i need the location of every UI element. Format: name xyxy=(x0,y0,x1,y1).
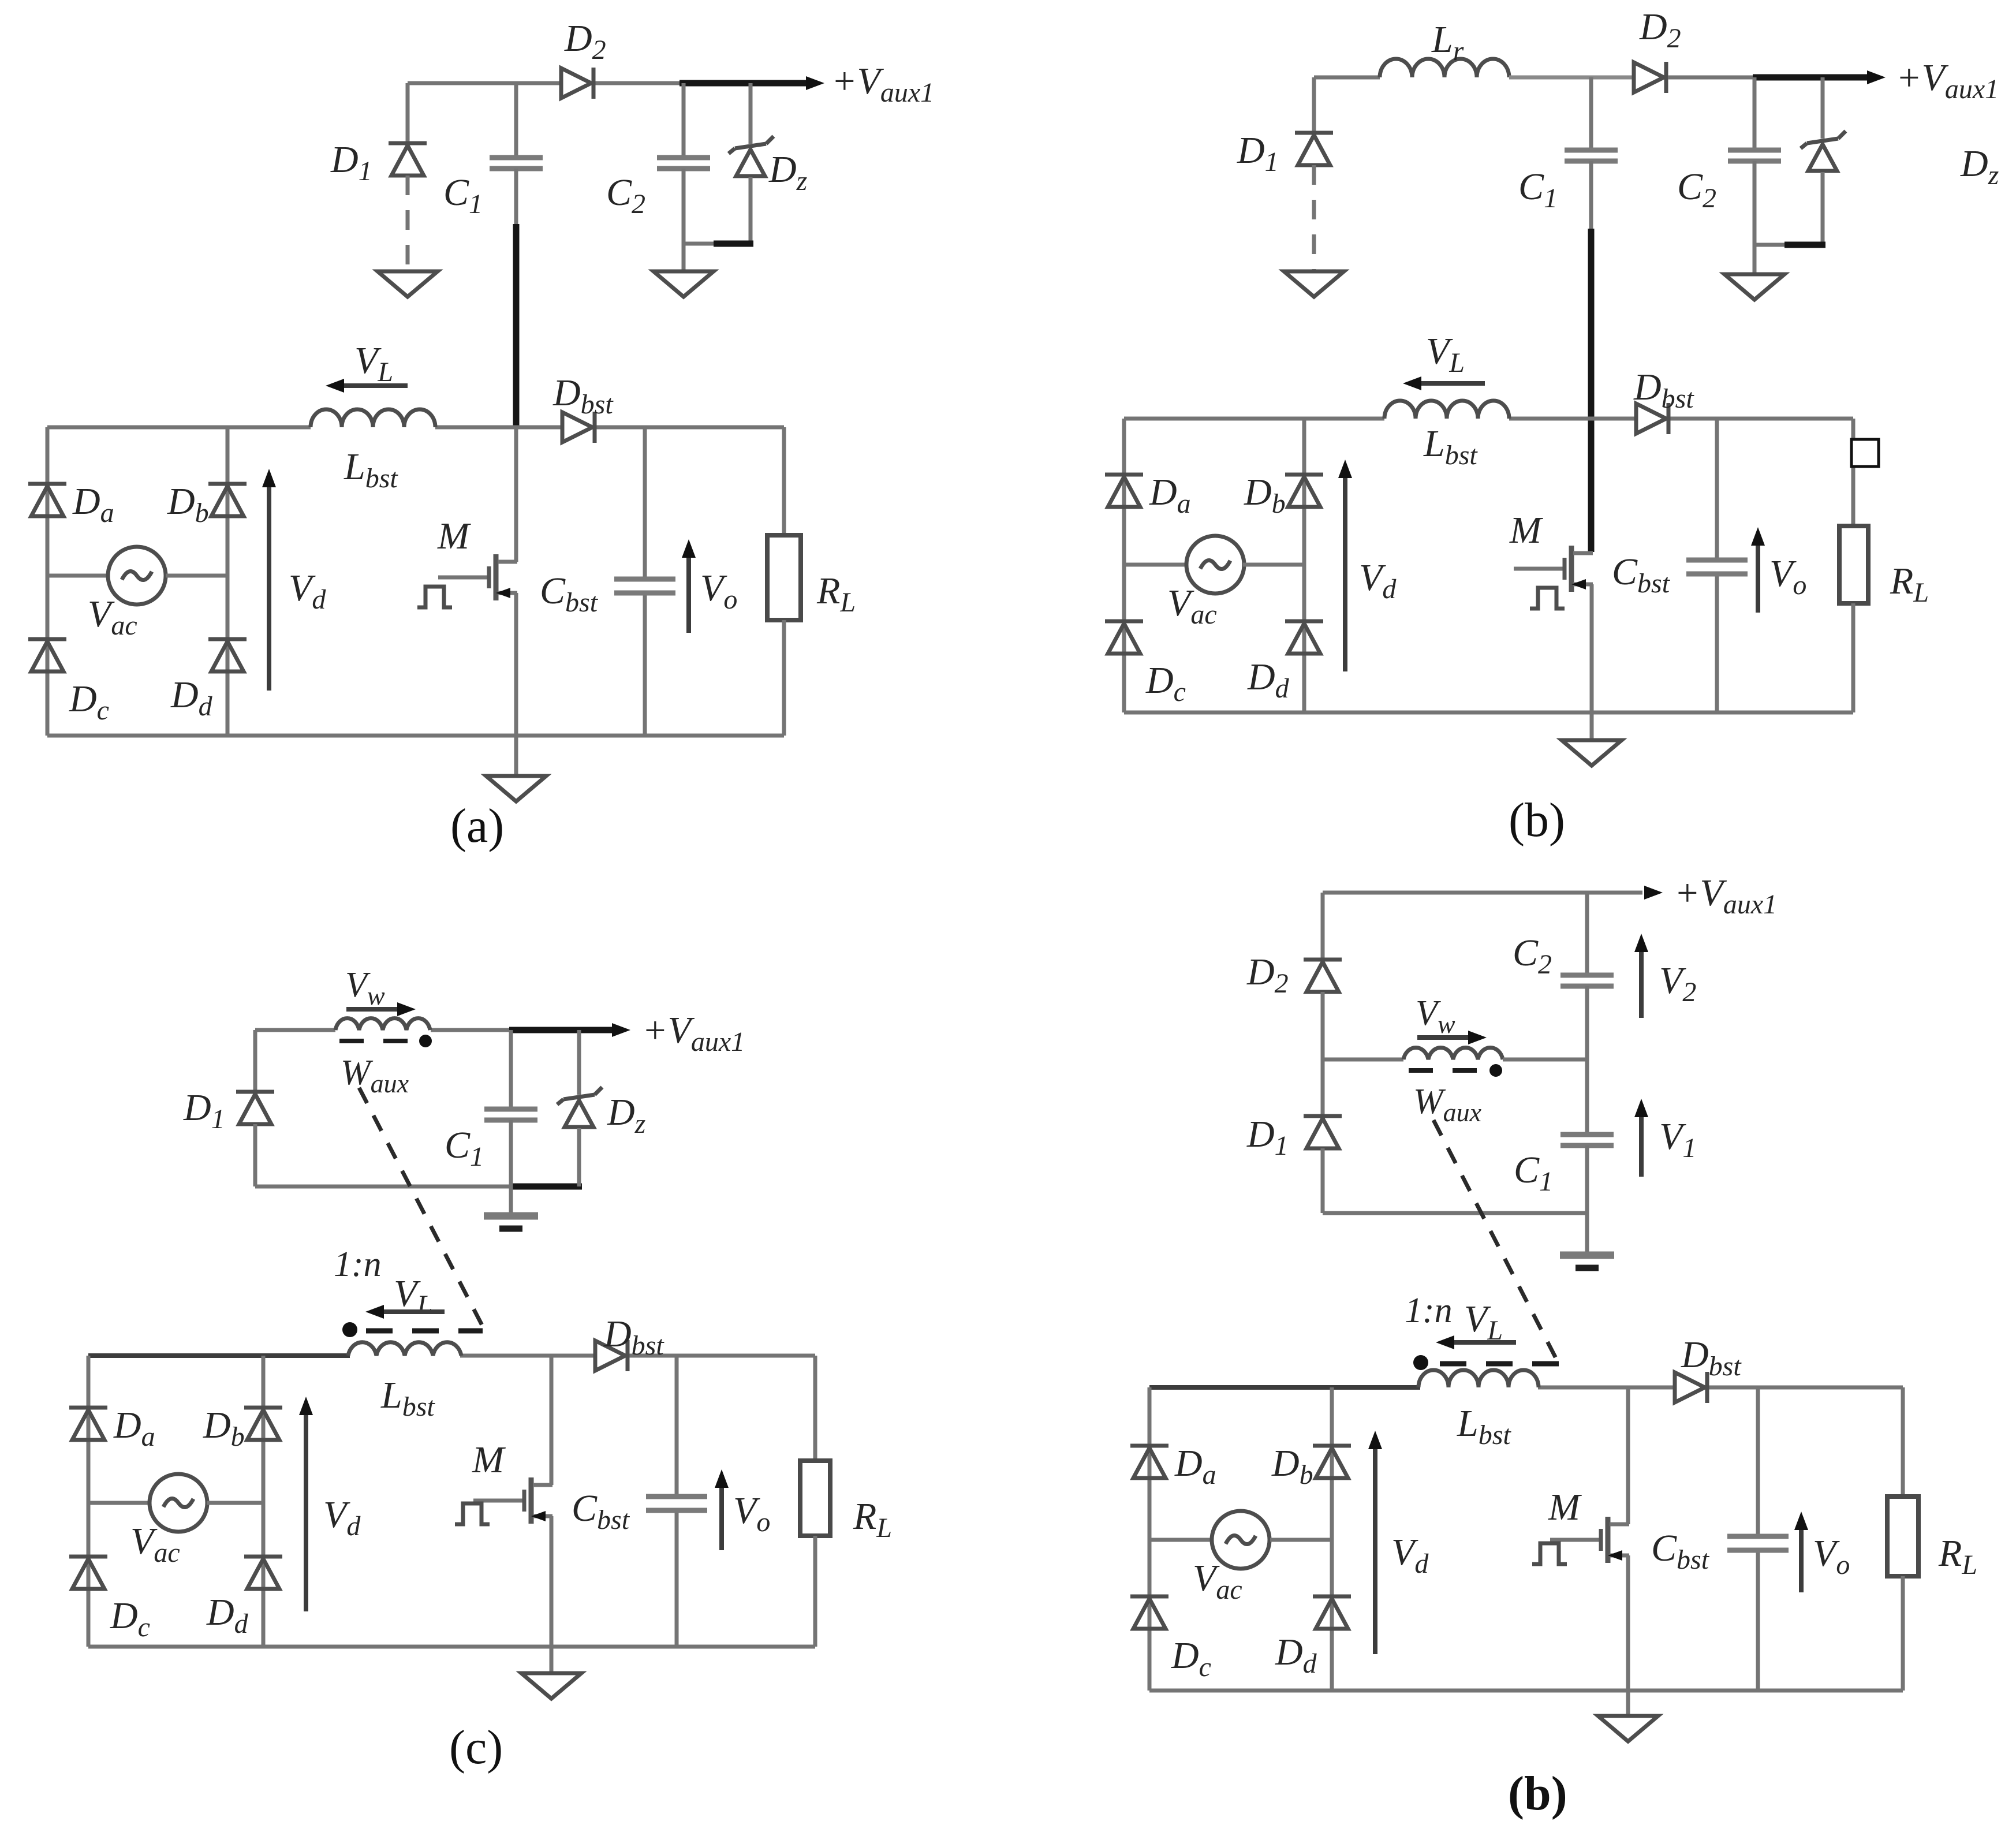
node VL arrowhead B xyxy=(1403,376,1421,390)
wire C1 top lead B xyxy=(1589,77,1593,149)
svg-text:Vd: Vd xyxy=(289,567,326,615)
diode Dc B xyxy=(1105,621,1143,654)
wire main left leg D xyxy=(1148,1387,1152,1691)
wire Vd arrow shaft D xyxy=(1373,1446,1377,1654)
diode Dc D xyxy=(1130,1596,1168,1629)
wire right branch upper B xyxy=(1851,419,1856,526)
wire right branch lower C xyxy=(813,1536,817,1647)
diode Dd D xyxy=(1313,1596,1351,1629)
wire mosfet source vertical D xyxy=(1626,1555,1630,1691)
diode Dd A xyxy=(208,639,247,671)
resistor RL C xyxy=(800,1461,830,1536)
wire bridge mid left C xyxy=(88,1501,150,1505)
wire V1 arrow shaft D xyxy=(1639,1114,1644,1177)
wire main top rail D xyxy=(1538,1386,1903,1390)
svg-text:Vac: Vac xyxy=(1193,1557,1242,1605)
svg-text:Dd: Dd xyxy=(1247,656,1290,704)
node Waux dot C xyxy=(419,1035,432,1047)
node Vo arrowhead A xyxy=(682,539,696,558)
capacitor C1 (aux A) xyxy=(490,158,543,169)
node V2 arrowhead D xyxy=(1634,934,1648,952)
capacitor C2 (aux A) xyxy=(657,158,710,169)
svg-text:Cbst: Cbst xyxy=(572,1487,630,1535)
capacitor Cbst D xyxy=(1727,1536,1789,1550)
wire Waux dash under coil D xyxy=(1409,1068,1483,1073)
wire V2 arrow shaft D xyxy=(1639,949,1644,1018)
svg-text:D1: D1 xyxy=(330,139,372,186)
svg-text:D1: D1 xyxy=(1246,1113,1289,1161)
node +Vaux1 arrow C xyxy=(612,1023,630,1037)
diode Db D xyxy=(1313,1446,1351,1478)
node sense square B xyxy=(1851,439,1879,467)
wire Cbst branch D xyxy=(1756,1387,1760,1691)
capacitor C2 (aux D) xyxy=(1560,975,1614,986)
wire C1 long black drop B xyxy=(1588,229,1595,552)
wire mosfet source vertical C xyxy=(550,1516,554,1647)
node Vo arrowhead B xyxy=(1751,527,1765,546)
svg-text:Db: Db xyxy=(167,480,209,528)
node V1 arrowhead D xyxy=(1634,1099,1648,1117)
wire main top rail left black C xyxy=(88,1353,350,1358)
capacitor Cbst B xyxy=(1686,560,1748,574)
diode D1 (aux B) xyxy=(1295,133,1333,165)
svg-text:D1: D1 xyxy=(1237,129,1279,177)
svg-text:Lbst: Lbst xyxy=(380,1374,435,1422)
wire VL arrow shaft C xyxy=(375,1309,445,1314)
svg-text:Dz: Dz xyxy=(768,148,808,196)
wire Dz bottom lead B xyxy=(1821,172,1825,245)
svg-text:Da: Da xyxy=(113,1404,155,1452)
wire Cbst branch B xyxy=(1715,419,1719,712)
transistor M (mosfet) D xyxy=(1550,1517,1629,1563)
wire aux bottom rail D xyxy=(1323,1211,1587,1215)
diode D1 (aux A) xyxy=(389,143,427,176)
wire Vd arrow shaft B xyxy=(1343,475,1347,671)
svg-text:V2: V2 xyxy=(1659,960,1696,1007)
wire bridge right leg C xyxy=(262,1356,266,1647)
svg-text:M: M xyxy=(1509,509,1544,551)
ac source Vac A xyxy=(108,547,166,604)
svg-text:D1: D1 xyxy=(183,1087,225,1135)
wire C2 top lead B xyxy=(1753,77,1757,149)
wire bridge mid right D xyxy=(1270,1538,1332,1542)
wire Cbst branch A xyxy=(643,427,647,736)
capacitor Cbst A xyxy=(614,579,675,593)
svg-text:(b): (b) xyxy=(1509,793,1565,847)
svg-text:RL: RL xyxy=(1890,560,1929,608)
ground main A xyxy=(486,776,546,801)
resistor RL D xyxy=(1887,1497,1918,1576)
wire main bottom rail A xyxy=(47,734,784,738)
diode Da D xyxy=(1130,1446,1168,1478)
wire main top rail A xyxy=(47,426,784,430)
capacitor C1 (aux D) xyxy=(1560,1135,1614,1145)
svg-text:Vw: Vw xyxy=(1416,994,1455,1039)
capacitor C1 (aux B) xyxy=(1565,150,1618,161)
svg-text:VL: VL xyxy=(354,339,393,387)
svg-text:Lbst: Lbst xyxy=(1423,423,1478,471)
svg-text:Dbst: Dbst xyxy=(603,1313,664,1361)
wire aux top rail B xyxy=(1314,76,1380,80)
wire coupling dashed line D xyxy=(1433,1120,1559,1364)
svg-text:RL: RL xyxy=(816,570,856,618)
transistor M (mosfet) C xyxy=(473,1477,552,1524)
svg-text:D2: D2 xyxy=(564,17,606,65)
wire aux top rail C xyxy=(255,1028,514,1032)
node Lbst dot D xyxy=(1413,1355,1428,1370)
svg-text:RL: RL xyxy=(1938,1532,1977,1580)
svg-text:C1: C1 xyxy=(1518,166,1558,214)
svg-text:C1: C1 xyxy=(445,1124,484,1172)
node gate pulse symbol A xyxy=(417,587,452,607)
wire mosfet drain vertical D xyxy=(1626,1387,1630,1524)
wire mosfet drain vertical A xyxy=(514,427,518,562)
diode Db C xyxy=(244,1408,282,1440)
node +Vaux1 arrow D xyxy=(1644,886,1663,900)
svg-text:Lbst: Lbst xyxy=(1457,1402,1511,1450)
wire bridge right leg A xyxy=(226,427,230,736)
wire D1 to ground dashed A xyxy=(406,176,410,271)
wire D2-to-output B xyxy=(1668,76,1758,80)
svg-text:Waux: Waux xyxy=(1413,1082,1482,1127)
svg-text:Cbst: Cbst xyxy=(1612,551,1671,599)
wire C2 bottom lead A xyxy=(682,169,686,271)
wire aux bottom black segment C xyxy=(509,1184,582,1190)
wire aux mid rail right D xyxy=(1503,1058,1587,1062)
wire Lbst dash above coil C xyxy=(366,1329,483,1334)
transistor M (mosfet) B xyxy=(1514,546,1593,592)
svg-text:RL: RL xyxy=(853,1495,892,1543)
ground main C xyxy=(521,1673,581,1699)
wire Dz bottom lead C xyxy=(577,1128,581,1186)
svg-text:Dc: Dc xyxy=(110,1595,150,1643)
wire ground stem D xyxy=(1626,1691,1630,1716)
node VL arrowhead C xyxy=(365,1305,384,1319)
wire bridge mid left A xyxy=(47,574,108,578)
svg-text:Dz: Dz xyxy=(607,1091,646,1139)
node +Vaux1 arrow A xyxy=(806,76,824,90)
QUADRANT D xyxy=(1130,872,1977,1820)
wire Dz top lead C xyxy=(577,1030,581,1095)
svg-text:D2: D2 xyxy=(1246,951,1289,999)
node Vd arrowhead D xyxy=(1368,1431,1382,1449)
svg-text:Dd: Dd xyxy=(1275,1631,1317,1679)
diode D2 (aux B) xyxy=(1634,62,1666,93)
diode Dbst B xyxy=(1636,403,1668,434)
wire right branch lower D xyxy=(1901,1576,1905,1691)
wire mosfet drain vertical C xyxy=(550,1356,554,1485)
svg-text:Dbst: Dbst xyxy=(1681,1334,1742,1382)
wire ground stem A xyxy=(514,736,518,776)
wire D1 to ground dashed B xyxy=(1312,165,1316,271)
svg-text:Dbst: Dbst xyxy=(552,372,614,420)
wire main top rail left black D xyxy=(1149,1385,1420,1390)
capacitor C2 (aux B) xyxy=(1728,150,1781,161)
node Vw arrowhead D xyxy=(1468,1031,1487,1044)
wire aux left leg C xyxy=(253,1030,257,1092)
capacitor C1 (aux C) xyxy=(484,1109,537,1120)
wire aux right leg lower D xyxy=(1585,1145,1589,1213)
ground below D1 B xyxy=(1284,271,1344,297)
svg-text:Dc: Dc xyxy=(1171,1635,1211,1682)
inductor Lbst D xyxy=(1418,1370,1539,1387)
wire right branch lower A xyxy=(782,620,786,736)
svg-text:1:n: 1:n xyxy=(1405,1291,1453,1330)
diode Da B xyxy=(1105,475,1143,507)
svg-text:Dc: Dc xyxy=(1145,659,1186,707)
svg-text:Db: Db xyxy=(1271,1442,1313,1490)
svg-text:Vac: Vac xyxy=(1167,582,1217,630)
wire bridge mid left B xyxy=(1124,563,1188,567)
wire Vw arrow shaft D xyxy=(1417,1035,1470,1040)
svg-text:Vo: Vo xyxy=(1813,1532,1850,1580)
wire right branch upper D xyxy=(1901,1387,1905,1497)
ac source Vac D xyxy=(1212,1511,1270,1569)
winding Waux coil C xyxy=(335,1018,430,1030)
winding Waux coil D xyxy=(1403,1048,1503,1059)
wire Vo arrow shaft A xyxy=(686,545,691,633)
wire aux left leg lower C xyxy=(253,1124,257,1186)
wire bridge mid right B xyxy=(1243,563,1304,567)
node gate pulse symbol B xyxy=(1530,588,1565,609)
wire Lbst dash above coil D xyxy=(1440,1361,1560,1367)
svg-text:M: M xyxy=(472,1439,506,1481)
svg-text:Vo: Vo xyxy=(733,1490,770,1538)
QUADRANT C xyxy=(69,965,892,1774)
svg-text:Cbst: Cbst xyxy=(1651,1527,1710,1575)
wire main top rail B xyxy=(1124,417,1853,421)
svg-text:Vo: Vo xyxy=(700,567,737,615)
wire main left leg B xyxy=(1122,419,1126,712)
diode Dc C xyxy=(69,1557,107,1589)
diode D2 (aux D) xyxy=(1304,960,1342,992)
wire right branch upper A xyxy=(782,427,786,535)
ground below C1 D xyxy=(1560,1255,1614,1268)
svg-text:Vo: Vo xyxy=(1769,553,1806,600)
wire ground stem B xyxy=(1590,712,1594,740)
node gate pulse symbol D xyxy=(1532,1543,1567,1564)
wire C1 top lead C xyxy=(509,1030,513,1108)
svg-text:C1: C1 xyxy=(1514,1149,1553,1197)
QUADRANT B xyxy=(1105,6,1999,847)
wire aux top rail D xyxy=(1323,891,1642,895)
wire aux left leg lower D xyxy=(1321,1148,1325,1213)
diode Dc A xyxy=(28,639,66,671)
svg-text:Cbst: Cbst xyxy=(540,570,599,618)
wire mosfet source vertical A xyxy=(514,593,518,736)
ground below D1 A xyxy=(378,271,438,297)
wire aux ground stem D xyxy=(1585,1213,1589,1252)
diode D2 (aux A) xyxy=(561,68,593,99)
svg-text:Dd: Dd xyxy=(170,674,213,722)
svg-text:C2: C2 xyxy=(606,171,645,219)
svg-text:Vw: Vw xyxy=(345,965,385,1010)
wire right branch upper C xyxy=(813,1356,817,1461)
node Vw arrowhead C xyxy=(397,1002,416,1016)
diode Db B xyxy=(1285,475,1323,507)
wire Dz bottom lead A xyxy=(749,177,753,244)
wire C1 bottom lead gray B xyxy=(1589,161,1593,231)
wire D1 branch upper A xyxy=(406,83,410,143)
diode Dbst A xyxy=(562,412,595,443)
node VL arrowhead A xyxy=(326,379,344,393)
wire Dz-C2 jog B xyxy=(1754,243,1787,247)
wire Vo arrow shaft B xyxy=(1756,533,1760,613)
wire aux output black segment C xyxy=(509,1027,613,1033)
wire bridge right leg B xyxy=(1302,419,1306,712)
wire aux right leg mid1 D xyxy=(1585,986,1589,1133)
svg-text:Lr: Lr xyxy=(1431,18,1464,66)
svg-text:Vd: Vd xyxy=(1391,1531,1429,1579)
svg-text:M: M xyxy=(437,515,472,557)
wire main bottom rail B xyxy=(1124,711,1853,715)
wire main bottom rail C xyxy=(88,1645,815,1649)
wire aux output black segment B xyxy=(1753,74,1869,81)
diode Da A xyxy=(28,484,66,516)
wire coupling dashed line C xyxy=(359,1088,484,1330)
wire C1 bottom lead C xyxy=(509,1120,513,1186)
svg-text:C2: C2 xyxy=(1677,166,1716,214)
wire aux left leg upper D xyxy=(1321,893,1325,960)
wire Vo arrow shaft D xyxy=(1799,1517,1804,1592)
diode Dd C xyxy=(244,1557,282,1589)
node Vd arrowhead A xyxy=(262,469,276,487)
wire Cbst branch C xyxy=(675,1356,679,1647)
wire right branch lower B xyxy=(1851,603,1856,712)
svg-text:Da: Da xyxy=(1149,471,1191,519)
wire VL arrow shaft B xyxy=(1412,381,1485,386)
svg-text:V1: V1 xyxy=(1659,1115,1696,1163)
node VL arrowhead D xyxy=(1436,1335,1454,1349)
svg-text:Dz: Dz xyxy=(1960,143,1999,191)
svg-text:Da: Da xyxy=(1174,1442,1216,1490)
svg-text:Vd: Vd xyxy=(1359,557,1397,604)
diode D1 (aux D) xyxy=(1304,1116,1342,1148)
wire Vd arrow shaft C xyxy=(304,1412,308,1611)
capacitor Cbst C xyxy=(646,1497,707,1510)
wire Vd arrow shaft A xyxy=(267,484,271,691)
svg-text:Db: Db xyxy=(1244,471,1286,519)
wire aux output black segment A xyxy=(680,80,808,87)
wire mosfet source vertical B xyxy=(1590,584,1594,712)
node Vd arrowhead B xyxy=(1338,460,1352,478)
wire Dz top lead B xyxy=(1821,77,1825,139)
zener diode Dz (aux A) xyxy=(729,136,774,176)
zener diode Dz (aux B) xyxy=(1801,131,1846,171)
ground main B xyxy=(1562,740,1622,766)
svg-text:C1: C1 xyxy=(443,171,483,219)
svg-text:Dc: Dc xyxy=(69,678,109,726)
wire main top rail C xyxy=(460,1354,815,1358)
inductor Lbst A xyxy=(311,409,435,427)
wire bridge mid right A xyxy=(166,574,227,578)
svg-text:Da: Da xyxy=(72,480,114,528)
ground below C2 B xyxy=(1724,274,1784,300)
ac source Vac B xyxy=(1186,536,1244,594)
svg-text:Dbst: Dbst xyxy=(1633,366,1694,414)
svg-text:C2: C2 xyxy=(1513,932,1552,980)
wire bridge mid left D xyxy=(1149,1538,1211,1542)
svg-text:+Vaux1: +Vaux1 xyxy=(831,60,934,108)
svg-text:Waux: Waux xyxy=(341,1053,409,1098)
wire aux ground stem C xyxy=(509,1186,513,1212)
wire C1 bottom lead gray A xyxy=(514,169,518,226)
svg-text:Vac: Vac xyxy=(130,1520,180,1568)
diode Db A xyxy=(208,484,247,516)
wire Dz top lead A xyxy=(749,83,753,144)
wire bridge right leg D xyxy=(1330,1387,1334,1691)
resistor RL B xyxy=(1839,526,1868,603)
wire VL arrow shaft D xyxy=(1445,1340,1516,1345)
QUADRANT A xyxy=(28,17,934,853)
diode Dd B xyxy=(1285,621,1323,654)
inductor Lbst B xyxy=(1384,401,1509,419)
node Vd arrowhead C xyxy=(299,1397,313,1415)
wire Vo arrow shaft C xyxy=(719,1475,724,1550)
svg-text:(a): (a) xyxy=(450,799,504,853)
wire aux left leg middle D xyxy=(1321,992,1325,1116)
diode D1 (aux C) xyxy=(236,1092,274,1124)
svg-text:Db: Db xyxy=(203,1404,245,1452)
svg-text:(c): (c) xyxy=(449,1721,503,1774)
diode Dbst D xyxy=(1675,1372,1707,1403)
wire aux top rail A xyxy=(408,81,561,85)
diode Dbst C xyxy=(595,1340,628,1371)
resistor RL A xyxy=(767,535,801,620)
wire ground stem C xyxy=(550,1647,554,1673)
wire main left leg A xyxy=(46,427,50,736)
node gate pulse symbol C xyxy=(455,1503,490,1524)
wire main bottom rail D xyxy=(1149,1689,1903,1693)
svg-text:+Vaux1: +Vaux1 xyxy=(642,1009,745,1057)
svg-text:(b): (b) xyxy=(1508,1767,1567,1820)
ac source Vac C xyxy=(150,1474,207,1532)
wire Waux dash under coil C xyxy=(339,1039,413,1043)
diode Da C xyxy=(69,1408,107,1440)
inductor Lbst C xyxy=(348,1342,461,1356)
svg-text:Vd: Vd xyxy=(323,1494,361,1542)
wire D1 branch upper B xyxy=(1312,77,1316,133)
wire aux mid rail left D xyxy=(1323,1058,1403,1062)
node Waux dot D xyxy=(1489,1064,1502,1077)
svg-text:+Vaux1: +Vaux1 xyxy=(1896,57,1999,105)
ground below C1 C xyxy=(484,1216,538,1229)
node +Vaux1 arrow B xyxy=(1867,70,1886,84)
wire main left leg C xyxy=(87,1356,91,1647)
node Vo arrowhead D xyxy=(1794,1512,1808,1530)
ground below C2 A xyxy=(654,271,714,297)
svg-text:Vac: Vac xyxy=(88,593,137,641)
svg-text:Lbst: Lbst xyxy=(344,446,398,494)
svg-text:M: M xyxy=(1548,1486,1582,1528)
wire Dz-C2 jog A xyxy=(684,242,716,246)
node Lbst dot C xyxy=(342,1322,357,1337)
wire C2 bottom lead B xyxy=(1753,161,1757,274)
ground main D xyxy=(1598,1716,1658,1741)
transistor M (mosfet) A xyxy=(438,554,517,600)
wire VL arrow shaft A xyxy=(335,383,408,388)
zener diode Dz (aux C) xyxy=(557,1087,602,1127)
inductor Lr B xyxy=(1380,59,1509,77)
wire C2 top lead A xyxy=(682,83,686,156)
wire bridge mid right C xyxy=(207,1501,263,1505)
svg-text:1:n: 1:n xyxy=(334,1245,382,1284)
wire Lr-to-D2 B xyxy=(1509,76,1633,80)
wire C1 top lead A xyxy=(514,83,518,156)
svg-text:VL: VL xyxy=(1426,330,1465,378)
node Vo arrowhead C xyxy=(715,1469,729,1488)
wire aux D2-to-output A xyxy=(595,81,684,85)
